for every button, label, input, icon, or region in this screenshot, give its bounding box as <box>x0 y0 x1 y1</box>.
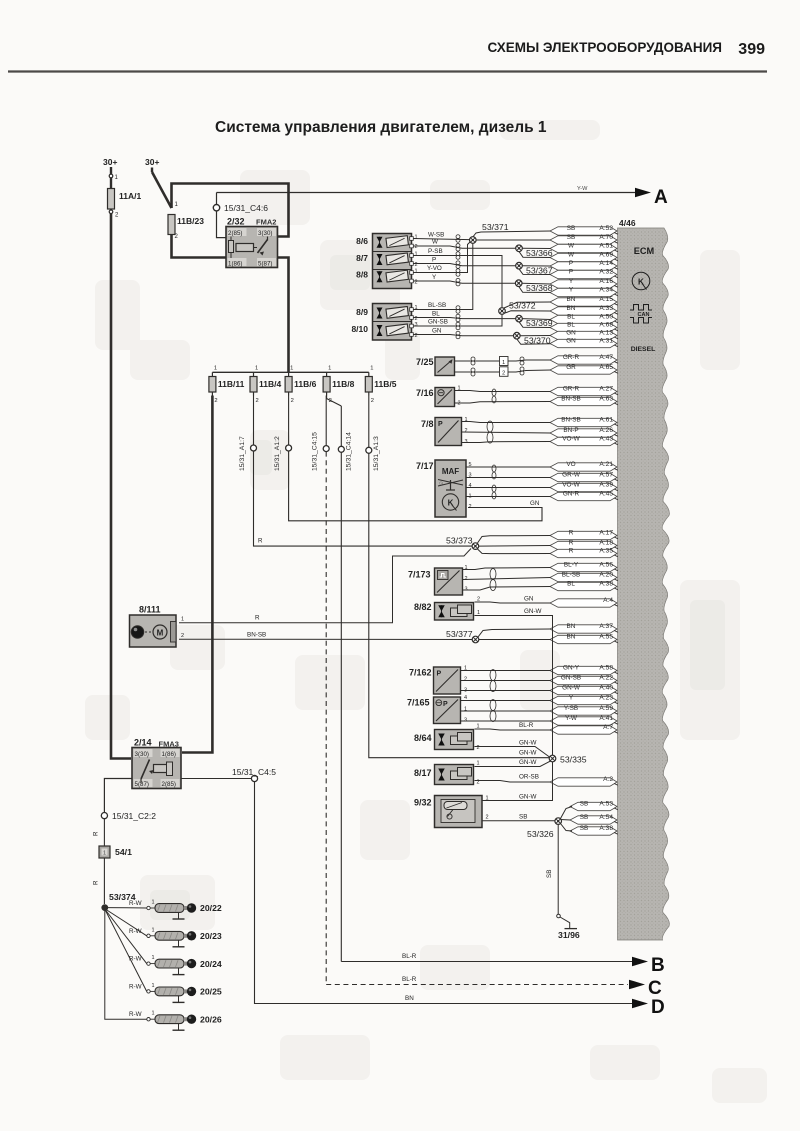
svg-text:2: 2 <box>415 280 418 286</box>
wire GN-W 8/17 pin1 to 53/335 <box>475 761 551 767</box>
connector 15/31_A1:3 <box>366 396 380 472</box>
svg-text:7/8: 7/8 <box>421 419 434 429</box>
svg-text:15/31_A1:2: 15/31_A1:2 <box>274 436 281 471</box>
svg-text:11B/5: 11B/5 <box>374 379 396 389</box>
svg-text:Y-W: Y-W <box>577 186 588 192</box>
sensor 7/173 <box>408 568 463 595</box>
svg-text:W: W <box>568 243 575 250</box>
svg-text:4: 4 <box>469 483 472 489</box>
svg-text:SB: SB <box>519 814 527 821</box>
svg-text:15/31_C4:6: 15/31_C4:6 <box>224 203 268 213</box>
svg-text:A:53: A:53 <box>599 801 613 808</box>
svg-text:4/46: 4/46 <box>619 218 636 228</box>
wire SB 9/32 pin2 to junction 53/326 <box>483 820 556 822</box>
svg-text:8/10: 8/10 <box>351 324 368 334</box>
svg-text:D: D <box>651 997 665 1018</box>
svg-text:BL: BL <box>432 311 440 318</box>
glow plug 20/23 <box>106 910 222 947</box>
svg-text:2: 2 <box>415 262 418 268</box>
sensor 7/162 <box>409 667 461 694</box>
svg-text:GN-SB: GN-SB <box>428 319 448 326</box>
relay 2/32 FMA2 <box>226 217 278 268</box>
valve 8/17 <box>414 765 474 785</box>
junction 53/371 <box>473 231 551 237</box>
junction 53/369 <box>519 322 551 328</box>
svg-text:3(30): 3(30) <box>135 751 149 758</box>
svg-text:GN-R: GN-R <box>563 491 580 498</box>
svg-text:53/366: 53/366 <box>526 248 553 258</box>
svg-text:A:38: A:38 <box>599 825 613 832</box>
svg-text:1(86): 1(86) <box>162 751 176 758</box>
svg-text:VO: VO <box>566 461 575 468</box>
wire BL 8/9 pin2 to junction 53/369 <box>413 318 516 319</box>
svg-text:7/173: 7/173 <box>408 570 431 580</box>
wire relay 2/32 pin 5(87) down to fuse bus <box>278 258 289 373</box>
svg-text:A:34: A:34 <box>599 287 613 294</box>
connector 15/31_C4:5 <box>232 767 276 782</box>
wire P 8/7 pin2 to junction 53/367 <box>413 264 516 266</box>
svg-text:A:59: A:59 <box>599 705 613 712</box>
svg-text:1: 1 <box>181 617 184 623</box>
svg-text:GN-W: GN-W <box>562 685 581 692</box>
svg-text:2: 2 <box>371 398 374 404</box>
svg-text:A:57: A:57 <box>599 472 613 479</box>
valve 8/64 <box>414 730 474 750</box>
svg-text:A:32: A:32 <box>599 269 613 276</box>
svg-text:11B/23: 11B/23 <box>177 216 204 226</box>
wire fuse 11B/23 to relay 2/32 pin 1(86) <box>172 235 227 258</box>
svg-text:Y-VO: Y-VO <box>427 265 442 272</box>
wire GN-W from A1:3 to junction 53/335 <box>369 453 550 757</box>
svg-text:A:2: A:2 <box>603 776 613 783</box>
fuse 11B/23 <box>168 215 204 241</box>
glow plug 20/26 <box>129 1011 222 1030</box>
svg-text:BN: BN <box>567 296 576 303</box>
svg-text:1: 1 <box>370 366 373 372</box>
svg-text:53/335: 53/335 <box>560 755 587 765</box>
svg-text:A:21: A:21 <box>599 461 613 468</box>
svg-text:A:35: A:35 <box>599 548 613 555</box>
svg-text:8/64: 8/64 <box>414 733 432 743</box>
svg-text:2/14: 2/14 <box>134 738 152 748</box>
svg-text:Y: Y <box>569 287 574 294</box>
wire BL-R to node B <box>341 961 632 963</box>
svg-text:7/162: 7/162 <box>409 668 432 678</box>
wire W-SB 8/6 pin1 to junction 53/371 <box>413 239 469 240</box>
svg-text:BN: BN <box>405 995 414 1002</box>
svg-text:A:20: A:20 <box>599 572 613 579</box>
svg-text:11B/6: 11B/6 <box>294 379 316 389</box>
junction 53/370 <box>517 339 551 344</box>
sensor 7/165 <box>407 697 461 724</box>
svg-text:R: R <box>569 540 574 547</box>
wire BL-R dashed to node C <box>326 984 628 986</box>
svg-text:GR: GR <box>566 364 576 371</box>
sensor 7/25 <box>416 357 455 376</box>
svg-text:8/9: 8/9 <box>356 307 368 317</box>
junction 53/372 <box>504 302 551 308</box>
svg-text:A:16: A:16 <box>599 278 613 285</box>
svg-text:7/165: 7/165 <box>407 698 430 708</box>
svg-text:53/377: 53/377 <box>446 629 473 639</box>
wire relay 2/14 pin 5(87) to left feed <box>104 779 132 813</box>
svg-text:3: 3 <box>415 322 418 328</box>
svg-text:A:38: A:38 <box>599 581 613 588</box>
svg-text:BN-SB: BN-SB <box>561 396 581 403</box>
connector 15/31_A1:2 <box>274 396 292 472</box>
svg-text:R-W: R-W <box>129 956 142 963</box>
wire C4:6 to relay 2/32 pin 2(85) <box>217 211 227 238</box>
page header <box>487 40 765 58</box>
wire GN-W 8/64 pin2 to 53/335 <box>475 747 550 758</box>
svg-text:SB: SB <box>546 870 553 878</box>
svg-text:P: P <box>569 260 573 267</box>
svg-text:8/111: 8/111 <box>139 605 161 615</box>
fuse 11B/8 <box>323 366 354 405</box>
svg-text:A:56: A:56 <box>599 562 613 569</box>
fuse 11A/1 <box>108 189 142 219</box>
svg-text:11B/4: 11B/4 <box>259 379 281 389</box>
svg-text:2(85): 2(85) <box>162 781 176 788</box>
svg-text:GN-Y: GN-Y <box>563 665 580 672</box>
svg-text:A:23: A:23 <box>599 695 613 702</box>
svg-text:DIESEL: DIESEL <box>631 346 656 353</box>
svg-text:1(86): 1(86) <box>228 261 242 268</box>
svg-text:GN: GN <box>566 338 576 345</box>
svg-text:A:31: A:31 <box>599 338 613 345</box>
svg-text:GR-R: GR-R <box>563 354 580 361</box>
wire R to fuse 54/1 <box>103 819 105 846</box>
svg-text:FMA2: FMA2 <box>256 218 276 227</box>
wire R to junction 53/374 <box>103 858 105 904</box>
svg-text:R: R <box>93 831 100 836</box>
svg-text:11A/1: 11A/1 <box>119 191 141 201</box>
sensor 7/16 <box>416 388 455 407</box>
svg-text:15/31_C4:14: 15/31_C4:14 <box>346 432 353 471</box>
svg-text:20/25: 20/25 <box>200 987 222 997</box>
wires 7/165 to ECM A:23 A:59 A:41 <box>461 700 551 702</box>
svg-text:2: 2 <box>181 633 184 639</box>
connector 15/31_C4:15 <box>312 396 330 472</box>
svg-text:W-SB: W-SB <box>428 232 444 239</box>
fuse 11B/4 <box>250 366 281 405</box>
svg-text:GN-W: GN-W <box>519 750 537 757</box>
wire SB down to ground 31/96 <box>557 825 559 915</box>
svg-text:1: 1 <box>502 360 505 366</box>
svg-text:2: 2 <box>415 244 418 250</box>
junction 53/335 <box>549 755 556 762</box>
svg-text:SB: SB <box>580 801 589 808</box>
glow plug 20/24 <box>106 910 222 975</box>
svg-text:A:70: A:70 <box>599 234 613 241</box>
svg-text:20/22: 20/22 <box>200 903 222 913</box>
junction 53/368 <box>519 286 551 292</box>
svg-text:GN: GN <box>524 596 534 603</box>
svg-text:2/32: 2/32 <box>227 217 245 227</box>
wire Y 8/8 pin2 to junction 53/368 <box>413 281 515 283</box>
svg-text:VO-W: VO-W <box>562 482 580 489</box>
svg-text:GN-W: GN-W <box>519 794 537 801</box>
svg-text:31/96: 31/96 <box>558 930 580 940</box>
svg-text:1: 1 <box>477 761 480 767</box>
svg-text:A:58: A:58 <box>599 665 613 672</box>
svg-text:GN-W: GN-W <box>519 759 537 766</box>
relay 2/14 FMA3 <box>132 738 181 789</box>
svg-text:20/24: 20/24 <box>200 959 222 969</box>
wire BL-R 8/64 pin1 to A:7 <box>475 729 551 730</box>
svg-text:11B/8: 11B/8 <box>332 379 354 389</box>
svg-text:A:54: A:54 <box>599 814 613 821</box>
svg-text:1: 1 <box>415 235 418 241</box>
svg-text:SB: SB <box>580 814 589 821</box>
svg-text:53/372: 53/372 <box>509 301 536 311</box>
fuse 11B/11 <box>209 366 245 405</box>
svg-text:8/82: 8/82 <box>414 602 432 612</box>
wire Y-VO 8/8 pin1 riser to junction 53/371 <box>413 242 470 273</box>
fuse 54/1 <box>99 846 132 858</box>
svg-text:2(85): 2(85) <box>228 230 242 237</box>
wire P-SB 8/7 pin1 to riser 53/372 <box>413 256 502 308</box>
svg-text:SB: SB <box>567 225 576 232</box>
svg-text:GN-SB: GN-SB <box>561 675 581 682</box>
svg-text:GN-W: GN-W <box>519 740 537 747</box>
svg-text:A:52: A:52 <box>599 225 613 232</box>
wires 7/25 to connector <box>455 360 500 362</box>
svg-text:Y: Y <box>569 695 574 702</box>
svg-text:A:41: A:41 <box>599 715 613 722</box>
svg-text:1: 1 <box>152 955 155 961</box>
svg-text:A:33: A:33 <box>599 305 613 312</box>
fuse 11B/6 <box>285 366 316 405</box>
svg-text:R-W: R-W <box>129 983 142 990</box>
svg-text:A:14: A:14 <box>599 260 613 267</box>
wire dashed C4:15 down to node C <box>325 452 327 985</box>
svg-text:A:65: A:65 <box>599 364 613 371</box>
svg-text:BL-SB: BL-SB <box>562 572 580 579</box>
svg-text:1: 1 <box>103 851 106 857</box>
svg-text:A:45: A:45 <box>599 491 613 498</box>
svg-text:1: 1 <box>290 366 293 372</box>
node A arrow <box>635 188 651 198</box>
injector block 8/9 8/10 <box>373 304 412 341</box>
svg-text:Y-W: Y-W <box>565 715 578 722</box>
svg-text:A:69: A:69 <box>599 252 613 259</box>
fuse bus wire <box>212 371 368 373</box>
wire C4:5 down to node D <box>255 782 633 1004</box>
svg-text:8/17: 8/17 <box>414 768 432 778</box>
svg-text:8/8: 8/8 <box>356 270 368 280</box>
svg-text:R: R <box>258 538 263 545</box>
svg-text:5(87): 5(87) <box>135 781 149 788</box>
svg-text:GN: GN <box>432 328 442 335</box>
svg-text:2: 2 <box>477 745 480 751</box>
svg-text:BL: BL <box>567 581 575 588</box>
wire thick loop to relay 2/32 <box>172 184 289 237</box>
glow plug relay 9/32 <box>414 796 482 828</box>
svg-text:53/371: 53/371 <box>482 222 509 232</box>
svg-text:1: 1 <box>255 366 258 372</box>
inline connector pins 1 2 <box>500 357 509 366</box>
svg-text:OR-SB: OR-SB <box>519 774 539 781</box>
svg-text:MAF: MAF <box>442 467 459 476</box>
wire R branch to pump 8/111 <box>179 549 471 623</box>
svg-text:GR-W: GR-W <box>562 472 581 479</box>
svg-text:2: 2 <box>415 333 418 339</box>
ground 31/96 <box>557 914 580 940</box>
ECM pin rows <box>550 225 618 835</box>
CAN symbol <box>630 305 652 311</box>
svg-text:P: P <box>443 701 448 708</box>
svg-text:W: W <box>432 239 438 246</box>
svg-text:A:4: A:4 <box>603 597 613 604</box>
valve 8/82 <box>414 602 474 620</box>
wire BL-SB 8/9 pin1 riser to junction 53/371 <box>413 243 473 309</box>
svg-text:Система управления двигателем,: Система управления двигателем, дизель 1 <box>215 119 547 136</box>
wire C4:14 down to node B <box>340 452 342 961</box>
svg-text:2: 2 <box>486 815 489 821</box>
svg-text:1: 1 <box>328 366 331 372</box>
svg-text:1: 1 <box>415 305 418 311</box>
svg-text:SB: SB <box>567 234 576 241</box>
svg-text:1: 1 <box>152 1011 155 1017</box>
connector 15/31_C4:14 <box>338 406 352 471</box>
svg-text:GN: GN <box>530 500 539 507</box>
svg-text:A:18: A:18 <box>599 540 613 547</box>
svg-text:8/7: 8/7 <box>356 253 368 263</box>
svg-text:5(87): 5(87) <box>258 261 272 268</box>
svg-text:A:7: A:7 <box>603 724 613 731</box>
svg-text:1: 1 <box>415 269 418 275</box>
wire GN 8/10 pin2 to junction 53/370 <box>413 335 514 336</box>
junction 53/366 <box>519 252 551 258</box>
svg-text:R-W: R-W <box>129 900 142 907</box>
svg-text:R-W: R-W <box>129 1011 142 1018</box>
svg-text:15/31_A1:3: 15/31_A1:3 <box>373 436 380 471</box>
svg-text:1: 1 <box>152 927 155 933</box>
svg-text:BN: BN <box>567 623 576 630</box>
svg-text:BL-R: BL-R <box>402 976 417 983</box>
injector block 8/6 8/7 8/8 <box>373 234 412 289</box>
svg-text:P-SB: P-SB <box>428 248 443 255</box>
svg-text:A:37: A:37 <box>599 623 613 630</box>
svg-text:3(30): 3(30) <box>258 230 272 237</box>
wire W 8/6 pin2 to junction 53/366 <box>413 246 516 248</box>
svg-text:P: P <box>432 257 436 264</box>
svg-text:M: M <box>157 629 164 638</box>
svg-text:2: 2 <box>502 371 505 377</box>
svg-text:2: 2 <box>256 398 259 404</box>
svg-text:C: C <box>648 978 662 999</box>
svg-text:30+: 30+ <box>145 157 159 167</box>
svg-text:1: 1 <box>464 707 467 713</box>
svg-text:BL-R: BL-R <box>519 722 534 729</box>
svg-text:R: R <box>255 615 260 622</box>
junction 53/377 <box>478 629 551 637</box>
wire to glow plug 20/26 <box>105 911 147 1020</box>
svg-text:SB: SB <box>580 825 589 832</box>
svg-text:Y-SB: Y-SB <box>564 705 578 712</box>
wire R from A1:7 to junction 53/373 <box>254 451 473 546</box>
svg-text:1: 1 <box>152 983 155 989</box>
svg-text:A:40: A:40 <box>599 685 613 692</box>
wire GN-SB 8/10 pin1 to junction 53/372 <box>413 314 502 326</box>
wires 7/162 to ECM A:58 A:22 A:40 <box>461 670 551 672</box>
svg-text:20/23: 20/23 <box>200 931 222 941</box>
svg-text:GN-W: GN-W <box>524 608 542 615</box>
svg-text:A:39: A:39 <box>599 482 613 489</box>
pump 8/111 <box>130 605 177 648</box>
svg-text:СХЕМЫ ЭЛЕКТРООБОРУДОВАНИЯ: СХЕМЫ ЭЛЕКТРООБОРУДОВАНИЯ <box>487 40 722 55</box>
glow plug 20/25 <box>106 911 222 1003</box>
svg-text:2: 2 <box>469 504 472 510</box>
svg-text:B: B <box>651 955 665 976</box>
svg-text:15/31_A1:7: 15/31_A1:7 <box>239 436 246 471</box>
svg-text:1: 1 <box>415 252 418 258</box>
svg-text:BN: BN <box>567 634 576 641</box>
svg-text:R: R <box>93 880 100 885</box>
svg-text:GR-R: GR-R <box>563 386 580 393</box>
svg-text:53/373: 53/373 <box>446 536 473 546</box>
svg-text:P: P <box>438 421 443 428</box>
svg-text:53/370: 53/370 <box>524 336 551 346</box>
svg-text:A:63: A:63 <box>599 396 613 403</box>
fuse 11B/5 <box>365 366 396 405</box>
svg-text:15/31_C2:2: 15/31_C2:2 <box>112 811 156 821</box>
svg-text:A:68: A:68 <box>599 322 613 329</box>
svg-text:15/31_C4:5: 15/31_C4:5 <box>232 767 276 777</box>
node B arrow <box>632 957 648 967</box>
svg-text:2: 2 <box>291 398 294 404</box>
ECM 4/46 column <box>618 228 670 940</box>
wire 11B/11 down to relay 2/14 pin 1(86) <box>182 396 212 753</box>
svg-text:A:61: A:61 <box>599 417 613 424</box>
svg-text:A: A <box>654 187 668 208</box>
junction 53/373 <box>478 536 551 544</box>
junction 53/367 <box>519 269 551 275</box>
svg-text:R-W: R-W <box>129 928 142 935</box>
connector 15/31_C4:6 <box>213 193 268 214</box>
svg-text:R: R <box>569 548 574 555</box>
battery feed 30+ second <box>145 157 172 208</box>
svg-text:BL-SB: BL-SB <box>428 302 446 309</box>
svg-text:2: 2 <box>465 428 468 434</box>
svg-text:53/326: 53/326 <box>527 829 554 839</box>
svg-text:A:27: A:27 <box>599 386 613 393</box>
svg-text:8/6: 8/6 <box>356 236 368 246</box>
junction 53/326 <box>561 807 573 819</box>
svg-text:ECM: ECM <box>634 246 655 256</box>
svg-text:A:17: A:17 <box>599 530 613 537</box>
svg-text:BN: BN <box>567 305 576 312</box>
connector 15/31_C2:2 <box>101 811 156 821</box>
svg-text:BN-SB: BN-SB <box>561 417 581 424</box>
svg-text:GN: GN <box>566 330 576 337</box>
svg-text:399: 399 <box>738 41 765 58</box>
svg-text:A:55: A:55 <box>599 634 613 641</box>
connector 15/31_A1:7 <box>239 396 257 472</box>
svg-text:BL-R: BL-R <box>402 953 417 960</box>
svg-text:A:50: A:50 <box>599 314 613 321</box>
svg-text:BN-P: BN-P <box>563 427 578 434</box>
svg-text:P: P <box>569 269 573 276</box>
wire 30+ down to relay 2/14 pin 3(30) <box>111 214 131 759</box>
svg-text:1: 1 <box>152 900 155 906</box>
svg-text:30+: 30+ <box>103 157 117 167</box>
sensor MAF 7/17 <box>416 460 466 517</box>
svg-text:P: P <box>437 671 442 678</box>
svg-text:A:13: A:13 <box>599 330 613 337</box>
svg-text:1: 1 <box>465 417 468 423</box>
